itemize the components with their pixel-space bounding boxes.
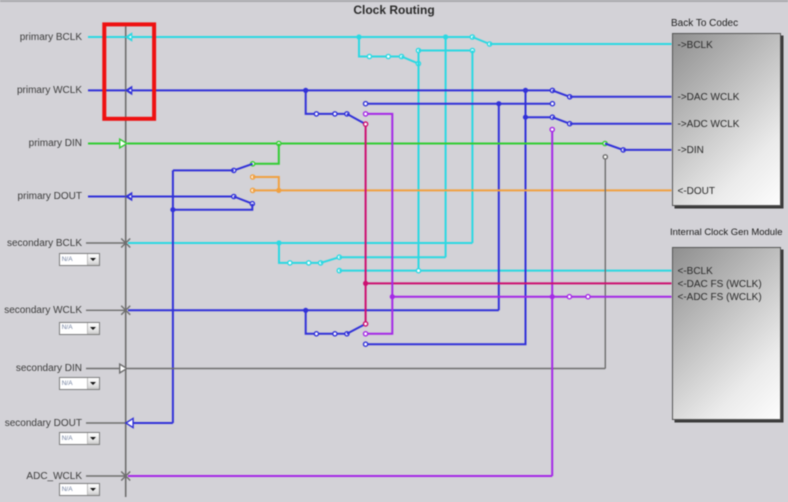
switch contact codec DOUT lower open bbox=[251, 188, 255, 192]
top window edge bbox=[0, 0, 788, 2]
combobox N/A 5 bbox=[59, 483, 100, 496]
node label secondary BCLK bbox=[0, 236, 82, 251]
wire primary DOUT line bbox=[132, 196, 234, 198]
wire secondary DOUT bus vertical bbox=[172, 170, 174, 423]
switch contact secondary WCLK 3 bbox=[345, 332, 349, 336]
wire secondary DIN label stub bbox=[86, 368, 120, 370]
switch contact primary WCLK 3 bbox=[345, 112, 349, 116]
switch blade back-to-codec BCLK bbox=[472, 37, 489, 44]
switch contact ADC FS top open bbox=[364, 112, 368, 116]
wire to codec ADC WCLK input bbox=[570, 123, 672, 125]
wire primary BCLK left segment bbox=[88, 36, 125, 38]
wire secondary WCLK label stub bbox=[86, 309, 125, 311]
switch contact primary BCLK riser end bbox=[337, 255, 341, 259]
switch contact open y344 bbox=[364, 342, 368, 346]
node label secondary WCLK bbox=[0, 303, 82, 318]
node label secondary DIN bbox=[0, 361, 82, 376]
wire primary WCLK vertical to open contact bbox=[366, 90, 526, 344]
switch blade secondary BCLK to primary BCLK riser bbox=[321, 257, 340, 263]
switch contact on internal BCLK vertical bbox=[416, 62, 420, 66]
wire secondary DOUT loop horizontal bbox=[173, 169, 234, 171]
switch contact secondary DOUT loop bbox=[232, 168, 236, 172]
node junction ADC FS line start bbox=[390, 294, 395, 299]
wire primary DOUT branch to vertical bbox=[173, 204, 252, 210]
wire secondary DIN line bbox=[128, 368, 606, 370]
node junction secondary WCLK bbox=[303, 308, 308, 313]
switch contact open right y104 bbox=[550, 102, 554, 106]
switch contact secondary WCLK 1 bbox=[314, 332, 318, 336]
wire to codec DIN input bbox=[623, 149, 671, 151]
node junction primary BCLK B bbox=[443, 34, 448, 39]
switch contact primary WCLK 1 bbox=[314, 112, 318, 116]
wire primary WCLK switch drop bbox=[306, 90, 347, 114]
node junction ADC FS and ADC_WCLK riser bbox=[550, 294, 555, 299]
node junction ADC WCLK feed bbox=[523, 115, 528, 120]
switch contact DAC WCLK common bbox=[568, 95, 572, 99]
node label primary WCLK bbox=[0, 83, 82, 98]
wire codec DOUT upper contact link bbox=[253, 177, 279, 190]
arrow secondary DIN hollow triangle bbox=[120, 364, 127, 373]
arrow primary BCLK into bus bbox=[125, 32, 133, 42]
node junction DAC FS bbox=[363, 281, 368, 286]
node label primary DIN bbox=[0, 136, 82, 151]
wire primary DIN left segment bbox=[88, 143, 120, 145]
wire secondary BCLK switch drop bbox=[279, 243, 321, 263]
wire primary BCLK riser vertical bbox=[445, 37, 447, 257]
node label secondary DOUT bbox=[0, 416, 82, 431]
switch contact ADC WCLK feed bbox=[550, 115, 554, 119]
switch contact BCLK branch 2 bbox=[386, 54, 390, 58]
wire secondary BCLK vertical riser bbox=[471, 51, 473, 244]
switch contact secondary BCLK 1 bbox=[288, 261, 292, 265]
switch contact primary DOUT bbox=[232, 194, 236, 198]
wire secondary WCLK switch drop bbox=[306, 310, 347, 334]
switch contact DAC WCLK on primary line bbox=[550, 88, 554, 92]
wire primary BCLK line bbox=[132, 36, 473, 38]
wire to codec DAC WCLK input bbox=[570, 96, 672, 98]
wire primary BCLK branch down bbox=[359, 37, 402, 57]
switch contact secondary WCLK 2 bbox=[333, 332, 337, 336]
wire to internal clock gen ADC FS input bbox=[392, 296, 671, 298]
wire secondary DOUT label stub bbox=[86, 422, 125, 424]
switch blade ADC WCLK bbox=[552, 117, 569, 124]
wire internal BCLK vertical bbox=[418, 51, 420, 271]
arrow secondary DOUT hollow triangle bbox=[126, 418, 133, 427]
node junction primary BCLK A bbox=[356, 34, 361, 39]
combobox N/A 2 bbox=[59, 322, 100, 335]
wire vertical bus line bbox=[125, 27, 127, 498]
wire secondary BCLK label stub bbox=[86, 242, 125, 244]
box Back To Codec bbox=[672, 33, 781, 206]
switch blade primary DOUT to secondary DOUT bus bbox=[234, 197, 253, 204]
switch contact open left y104 bbox=[364, 102, 368, 106]
wire primary WCLK line bbox=[132, 89, 553, 91]
wire to internal clock gen BCLK input bbox=[339, 270, 671, 272]
wire primary DIN line bbox=[128, 143, 606, 145]
switch contact ADC FS line 2 bbox=[586, 295, 590, 299]
node label primary DOUT bbox=[0, 189, 82, 204]
node junction primary DIN branch bbox=[277, 141, 281, 145]
arrow primary DOUT into bus bbox=[125, 192, 133, 202]
switch contact BCLK branch 1 bbox=[367, 54, 371, 58]
switch contact DAC FS bottom bbox=[364, 322, 368, 326]
wire primary WCLK left segment bbox=[88, 89, 125, 91]
node junction primary WCLK A bbox=[303, 88, 308, 93]
wire ADC_WCLK label stub bbox=[86, 475, 125, 477]
box Internal Clock Gen Module title bbox=[670, 227, 782, 238]
switch contact secondary BCLK 3 bbox=[319, 261, 323, 265]
wire ADC_WCLK riser vertical bbox=[551, 130, 553, 477]
highlight red rectangle bbox=[104, 24, 154, 118]
wire to codec BCLK input bbox=[490, 43, 672, 45]
wire secondary WCLK riser vertical bbox=[498, 104, 500, 311]
title Clock Routing bbox=[0, 3, 788, 17]
switch blade primary WCLK to DAC FS bus bbox=[347, 114, 366, 124]
node junction secondary WCLK riser bbox=[496, 101, 501, 106]
arrow primary WCLK into bus bbox=[125, 86, 133, 96]
switch contact codec DIN common bbox=[621, 148, 625, 152]
switch contact DAC FS top bbox=[364, 122, 368, 126]
switch contact BCLK branch 3 bbox=[399, 54, 403, 58]
node junction secondary BCLK bbox=[276, 240, 281, 245]
wire codec DOUT line bbox=[253, 189, 672, 191]
combobox N/A 3 bbox=[59, 377, 100, 390]
node label ADC_WCLK bbox=[0, 469, 82, 484]
switch contact primary DOUT branch bbox=[250, 202, 254, 206]
node secondary BCLK top corner contact bbox=[470, 48, 474, 52]
switch contact ADC FS line 1 bbox=[567, 295, 571, 299]
switch blade secondary DOUT loop to primary DIN bbox=[234, 164, 253, 171]
switch contact ADC WCLK common bbox=[568, 122, 572, 126]
node X tap ADC_WCLK bbox=[121, 472, 130, 481]
box Internal Clock Gen Module bbox=[672, 247, 781, 420]
switch contact codec DOUT upper open bbox=[251, 175, 255, 179]
wire secondary DIN riser vertical bbox=[604, 157, 606, 369]
switch contact primary WCLK 2 bbox=[333, 112, 337, 116]
combobox N/A 1 bbox=[59, 253, 100, 266]
wire to internal clock gen DAC FS input bbox=[366, 282, 672, 284]
node junction internal BCLK feed bbox=[416, 269, 420, 273]
wire primary BCLK riser horizontal bbox=[339, 256, 445, 258]
wire primary DOUT left segment bbox=[88, 196, 125, 198]
wire secondary DOUT link bbox=[133, 422, 173, 424]
switch blade secondary WCLK to DAC FS bus bbox=[347, 324, 366, 334]
switch contact internal clock BCLK open bbox=[337, 269, 341, 273]
wire ADC_WCLK line bbox=[128, 475, 552, 477]
node junction secondary DOUT bus bbox=[170, 207, 175, 212]
node X tap secondary BCLK bbox=[121, 239, 130, 248]
wire primary DIN branch down-left bbox=[253, 144, 279, 164]
box Back To Codec title bbox=[671, 18, 738, 29]
arrow primary DIN hollow triangle bbox=[120, 139, 127, 148]
switch blade codec DIN bbox=[605, 144, 623, 150]
switch contact back-to-codec BCLK common bbox=[488, 42, 492, 46]
switch contact codec DIN on primary DIN bbox=[603, 141, 607, 145]
switch contact primary DIN branch bbox=[251, 162, 255, 166]
switch contact secondary BCLK 2 bbox=[307, 261, 311, 265]
switch blade BCLK branch to internal BCLK bus bbox=[402, 57, 419, 64]
switch contact ADC_WCLK top open bbox=[550, 127, 554, 131]
node internal BCLK top junction bbox=[416, 48, 420, 52]
switch contact back-to-codec BCLK on primary line bbox=[470, 35, 474, 39]
node junction primary WCLK B bbox=[523, 88, 528, 93]
node label primary BCLK bbox=[0, 30, 82, 45]
wire DAC FS bus vertical bbox=[365, 124, 367, 324]
wire ADC WCLK feed horizontal bbox=[526, 116, 553, 118]
wire secondary BCLK line bbox=[128, 242, 472, 244]
node X tap secondary WCLK bbox=[121, 306, 130, 315]
wire secondary WCLK line bbox=[128, 309, 499, 311]
combobox N/A 4 bbox=[59, 432, 100, 445]
wire open contact line y104 bbox=[366, 103, 553, 105]
wire ADC FS open contact link top bbox=[366, 114, 393, 334]
wire secondary BCLK top link bbox=[419, 50, 473, 52]
switch contact secondary DIN open bbox=[603, 155, 607, 159]
switch contact ADC FS bottom open bbox=[364, 332, 368, 336]
node junction codec DOUT bbox=[276, 188, 281, 193]
switch blade DAC WCLK bbox=[552, 90, 569, 96]
